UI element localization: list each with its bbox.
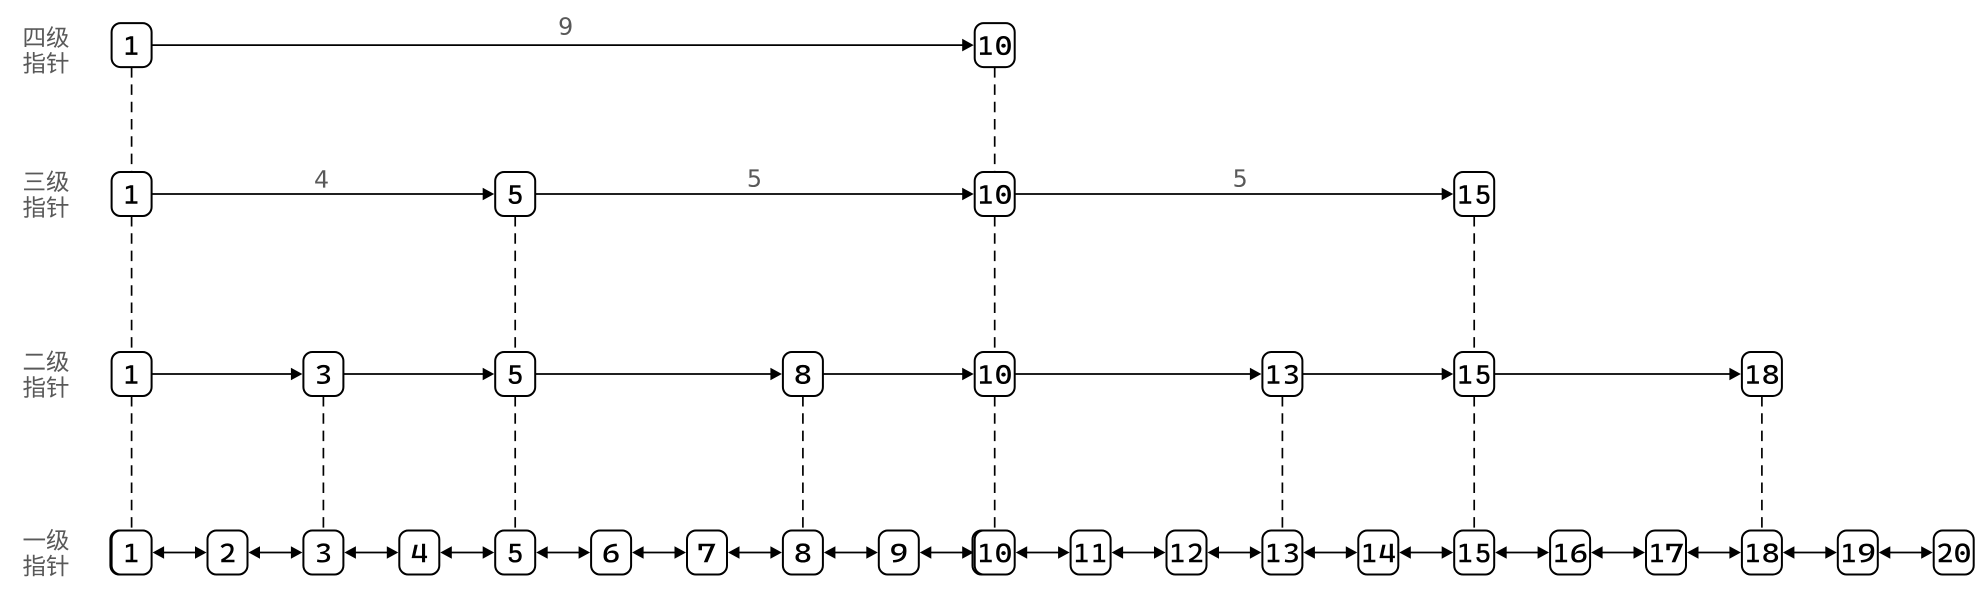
dashed link col18 row2->1 [1761, 396, 1763, 531]
doubly-linked arrow L1: 14<->15 [1399, 546, 1453, 559]
doubly-linked arrow L1: 1<->2 [153, 546, 207, 559]
arrow L2: 5->8 [535, 368, 782, 381]
node L2-1 [112, 352, 152, 396]
doubly-linked arrow L1: 13<->14 [1303, 546, 1357, 559]
doubly-linked arrow L1: 15<->16 [1495, 546, 1549, 559]
dashed link col3 row2->1 [322, 396, 324, 531]
node L1-4 [399, 531, 439, 575]
doubly-linked arrow L1: 17<->18 [1687, 546, 1741, 559]
doubly-linked arrow L1: 10<->11 [1016, 546, 1070, 559]
node L1-19 [1838, 531, 1878, 575]
doubly-linked arrow L1: 6<->7 [632, 546, 686, 559]
node L1-12 [1167, 531, 1207, 575]
node L2-13 [1262, 352, 1302, 396]
row label 三级指针 (level-3 pointer) [23, 170, 68, 217]
dashed link col5 row3->2 [514, 216, 516, 352]
arrow L2: 1->3 [152, 368, 303, 381]
node L1-3 [303, 531, 343, 575]
doubly-linked arrow L1: 12<->13 [1208, 546, 1262, 559]
doubly-linked arrow L1: 3<->4 [344, 546, 398, 559]
dashed link col1 row4->3 [131, 67, 133, 172]
node L1-18 [1742, 531, 1782, 575]
arrow L2: 8->10 [823, 368, 974, 381]
node L1-1 [110, 531, 151, 575]
dashed link col10 row4->3 [994, 67, 996, 172]
doubly-linked arrow L1: 4<->5 [440, 546, 494, 559]
node L1-16 [1550, 531, 1590, 575]
row label 一级指针 (level-1 pointer) [23, 529, 68, 576]
node L1-9 [879, 531, 919, 575]
dashed link col10 row3->2 [994, 216, 996, 352]
arrow L2: 13->15 [1302, 368, 1453, 381]
doubly-linked arrow L1: 11<->12 [1112, 546, 1166, 559]
dashed link col1 row2->1 [131, 396, 133, 531]
node L3-10 [975, 172, 1015, 216]
dashed link col8 row2->1 [802, 396, 804, 531]
node L3-1 [112, 172, 152, 216]
doubly-linked arrow L1: 18<->19 [1783, 546, 1837, 559]
node L1-17 [1646, 531, 1686, 575]
doubly-linked arrow L1: 7<->8 [728, 546, 782, 559]
arrow L2: 10->13 [1015, 368, 1262, 381]
dashed link col15 row2->1 [1473, 396, 1475, 531]
node L1-15 [1454, 531, 1494, 575]
arrow L2: 3->5 [343, 368, 494, 381]
doubly-linked arrow L1: 2<->3 [249, 546, 303, 559]
row label 二级指针 (level-2 pointer) [23, 350, 68, 397]
span width label 5 [749, 169, 760, 187]
row label 四级指针 (level-4 pointer) [23, 26, 68, 73]
node L4-10 [975, 23, 1015, 67]
doubly-linked arrow L1: 5<->6 [536, 546, 590, 559]
dashed link col13 row2->1 [1281, 396, 1283, 531]
node L4-1 [112, 23, 152, 67]
dashed link col10 row2->1 [994, 396, 996, 531]
node L3-15 [1454, 172, 1494, 216]
doubly-linked arrow L1: 9<->10 [920, 546, 974, 559]
node L1-2 [208, 531, 248, 575]
arrow L3: 10->15 [1015, 188, 1453, 201]
node L1-10 [973, 531, 1015, 575]
dashed link col5 row2->1 [514, 396, 516, 531]
node L3-5 [495, 172, 535, 216]
node L1-13 [1262, 531, 1302, 575]
arrow L3: 1->5 [152, 188, 495, 201]
span width label 5 [1234, 169, 1245, 187]
node L2-3 [303, 352, 343, 396]
arrow L4: 1->10 [152, 39, 974, 52]
node L1-14 [1358, 531, 1398, 575]
node L1-20 [1934, 531, 1974, 575]
node L1-11 [1071, 531, 1111, 575]
doubly-linked arrow L1: 19<->20 [1879, 546, 1933, 559]
node L2-15 [1454, 352, 1494, 396]
node L2-8 [783, 352, 823, 396]
node L1-5 [495, 531, 535, 575]
node L2-18 [1742, 352, 1782, 396]
node L1-8 [783, 531, 823, 575]
arrow L2: 15->18 [1494, 368, 1741, 381]
arrow L3: 5->10 [535, 188, 974, 201]
node L2-10 [975, 352, 1015, 396]
node L1-7 [687, 531, 727, 575]
dashed link col1 row3->2 [131, 216, 133, 352]
doubly-linked arrow L1: 16<->17 [1591, 546, 1645, 559]
span width label 9 [560, 17, 572, 35]
doubly-linked arrow L1: 8<->9 [824, 546, 878, 559]
dashed link col15 row3->2 [1473, 216, 1475, 352]
node L2-5 [495, 352, 535, 396]
span width label 4 [315, 170, 328, 187]
node L1-6 [591, 531, 631, 575]
